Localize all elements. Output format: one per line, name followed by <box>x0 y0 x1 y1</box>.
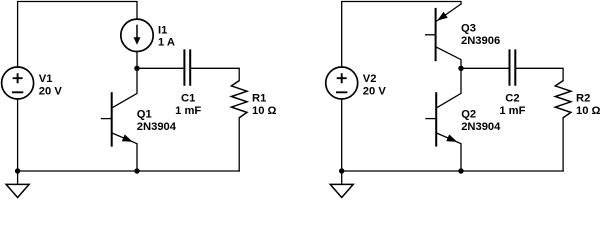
ground symbol right <box>330 171 353 198</box>
wire C1 right plate to R1 top <box>191 68 239 80</box>
capacitor C2 <box>510 49 516 85</box>
wire R2 bottom to ground rail <box>562 118 564 171</box>
wire R1 bottom to ground rail <box>238 118 240 171</box>
ground symbol left <box>6 171 29 198</box>
voltage source V1 <box>2 67 34 99</box>
label C1 1 mF <box>175 93 201 117</box>
label Q2 2N3904 <box>461 109 501 133</box>
resistor R1 <box>231 81 247 118</box>
svg-text:20 V: 20 V <box>363 85 387 97</box>
wire ground rail left circuit <box>18 170 240 172</box>
svg-text:V2: V2 <box>363 73 377 85</box>
svg-text:10 Ω: 10 Ω <box>252 105 277 117</box>
voltage source V2 <box>326 67 358 99</box>
wire ground rail right circuit <box>342 170 563 172</box>
label R1 10 ohm <box>252 93 277 117</box>
wire C2 right plate to R2 top <box>516 68 563 80</box>
transistor Q1 <box>102 68 138 171</box>
label Q3 2N3906 <box>461 23 500 47</box>
svg-text:2N3906: 2N3906 <box>461 35 500 47</box>
svg-text:I1: I1 <box>158 25 167 37</box>
svg-text:Q2: Q2 <box>461 109 476 121</box>
svg-text:Q3: Q3 <box>461 23 476 35</box>
svg-text:1 mF: 1 mF <box>175 105 201 117</box>
junction dot V1 ground <box>15 168 20 173</box>
svg-text:R2: R2 <box>576 93 590 105</box>
junction dot right mid node <box>458 66 463 71</box>
wire V2 bottom to ground rail <box>341 99 343 171</box>
label C2 1 mF <box>499 93 525 117</box>
label I1 1 A <box>158 25 175 49</box>
wire I1 bottom to node <box>136 52 138 69</box>
wire V1 bottom to ground rail <box>17 99 19 171</box>
transistor Q2 <box>426 68 461 171</box>
wire node to C2 left plate <box>461 67 509 69</box>
label R2 10 ohm <box>576 93 600 117</box>
wire top rail right circuit <box>342 2 461 68</box>
svg-text:2N3904: 2N3904 <box>137 121 177 133</box>
svg-text:10 Ω: 10 Ω <box>576 105 600 117</box>
junction dot V2 ground <box>339 168 344 173</box>
junction dot Q2 emitter ground <box>458 168 463 173</box>
svg-text:1 A: 1 A <box>158 37 175 49</box>
capacitor C1 <box>184 49 190 85</box>
resistor R2 <box>555 81 571 118</box>
svg-text:2N3904: 2N3904 <box>461 121 501 133</box>
wire node to C1 left plate <box>137 67 184 69</box>
label Q1 2N3904 <box>137 109 177 133</box>
svg-text:Q1: Q1 <box>137 109 152 121</box>
svg-text:C2: C2 <box>505 93 519 105</box>
wire top rail left circuit <box>18 2 137 68</box>
svg-text:1 mF: 1 mF <box>499 105 525 117</box>
svg-text:C1: C1 <box>181 93 195 105</box>
svg-text:20 V: 20 V <box>39 85 63 97</box>
svg-text:V1: V1 <box>39 73 53 85</box>
label V1 20 V <box>39 73 63 97</box>
transistor Q3 <box>426 4 461 68</box>
label V2 20 V <box>363 73 387 97</box>
svg-text:R1: R1 <box>252 93 266 105</box>
junction dot Q1 emitter ground <box>134 168 139 173</box>
current source I1 <box>121 19 153 51</box>
junction dot left mid node <box>134 66 139 71</box>
